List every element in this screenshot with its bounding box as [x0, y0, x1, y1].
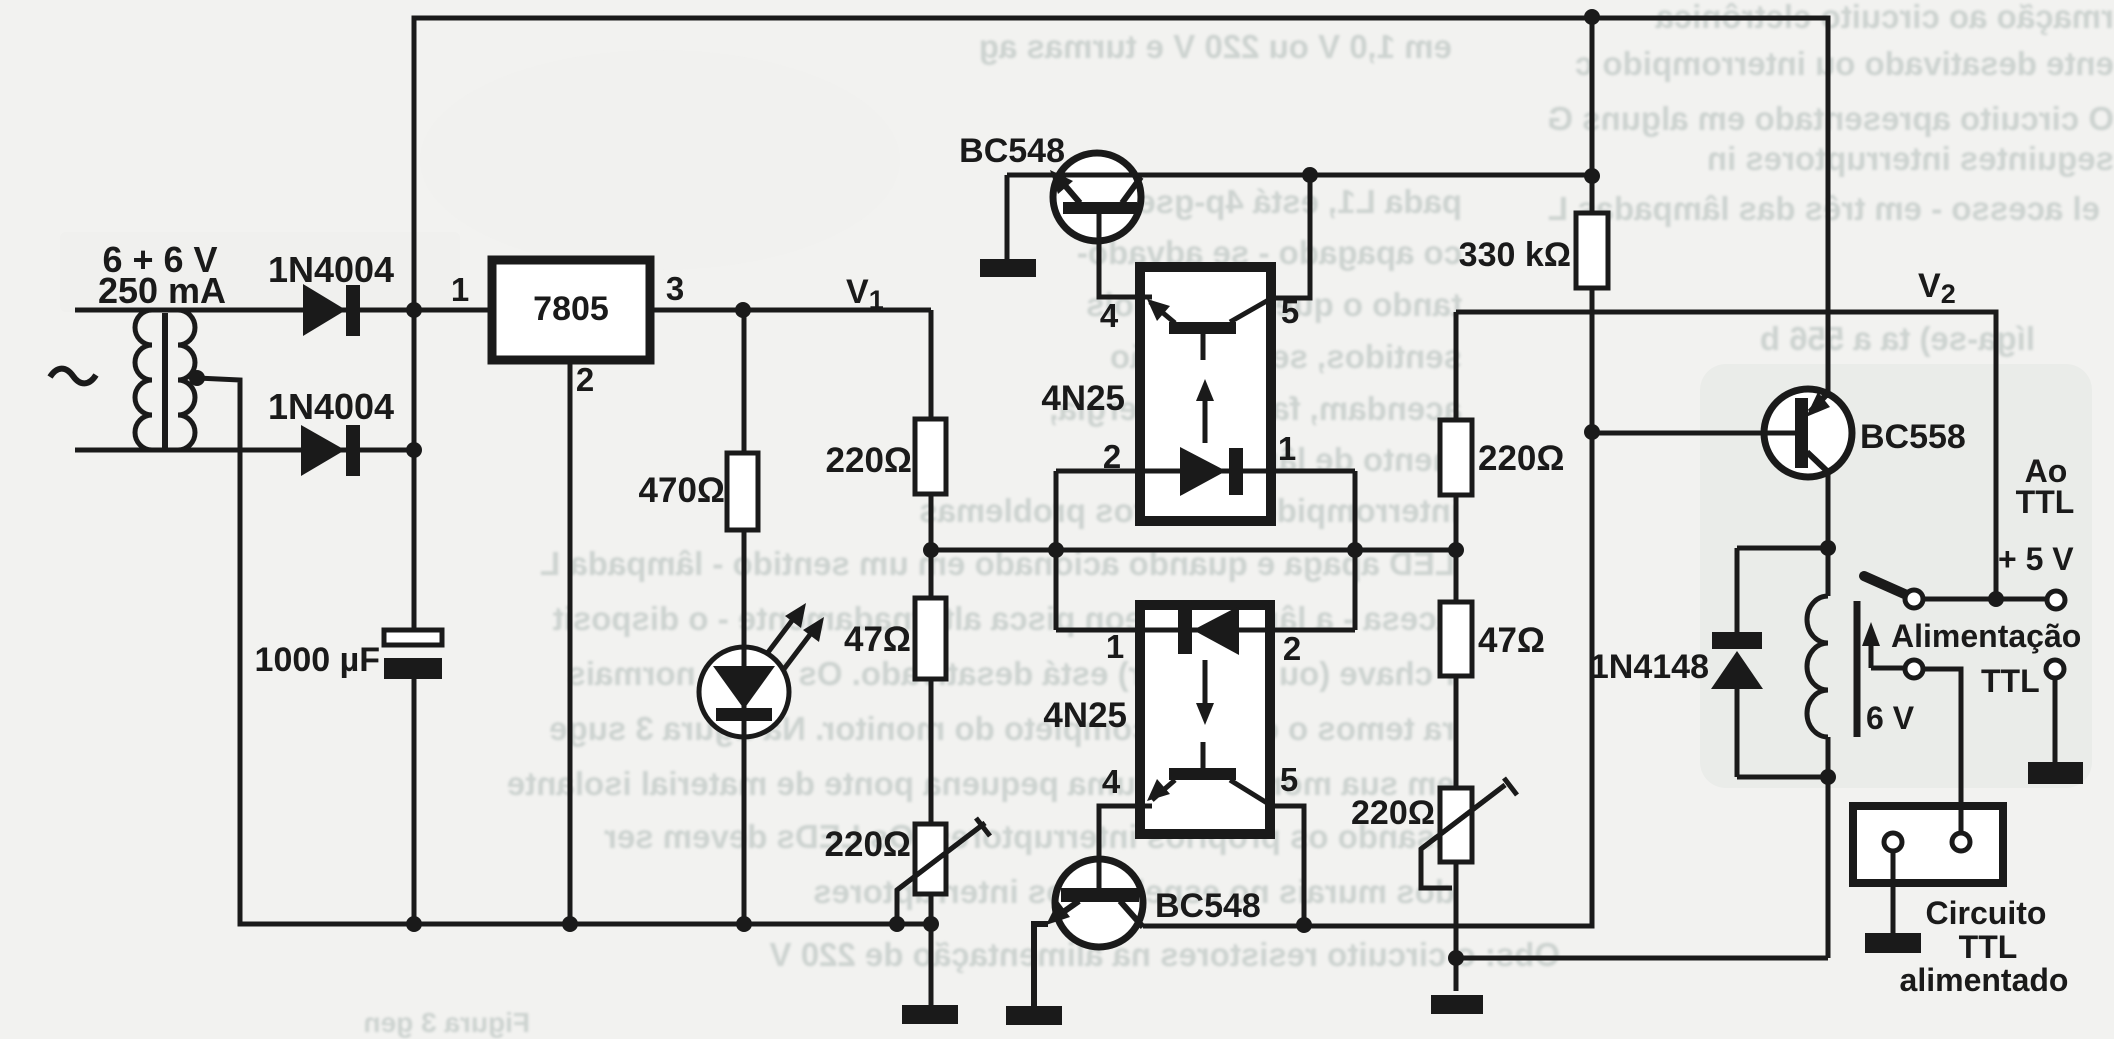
svg-text:el acesso - em três das lâmpad: el acesso - em três das lâmpadas L: [1548, 190, 2100, 227]
svg-text:BC548: BC548: [1155, 887, 1261, 925]
svg-text:1: 1: [1106, 628, 1124, 665]
svg-text:Obs: o circuito resistores na: Obs: o circuito resistores na alimentaçã…: [770, 936, 1560, 973]
svg-text:usando os próprios interruptor: usando os próprios interruptores. Os LED…: [604, 818, 1455, 855]
svg-text:BC548: BC548: [959, 132, 1065, 170]
svg-text:TTL: TTL: [1981, 663, 2040, 699]
svg-text:1N4004: 1N4004: [268, 249, 394, 290]
svg-text:em sua montagem numa pequena p: em sua montagem numa pequena ponte de ma…: [507, 765, 1455, 802]
svg-text:4: 4: [1102, 763, 1121, 800]
svg-text:3: 3: [666, 270, 684, 307]
svg-text:em 1,0 V ou 220 V e turmas ag: em 1,0 V ou 220 V e turmas ag: [979, 28, 1452, 65]
svg-text:O circuito apresentado em algu: O circuito apresentado em alguns G: [1547, 100, 2114, 137]
svg-text:4: 4: [1100, 297, 1119, 334]
svg-text:47Ω: 47Ω: [844, 620, 911, 659]
svg-text:BC558: BC558: [1860, 418, 1966, 456]
svg-text:1N4148: 1N4148: [1590, 648, 1709, 686]
svg-text:7805: 7805: [533, 290, 609, 328]
svg-text:TTL: TTL: [2016, 484, 2075, 520]
svg-text:2: 2: [1283, 630, 1301, 667]
svg-text:2: 2: [576, 361, 594, 398]
svg-text:4N25: 4N25: [1041, 379, 1125, 418]
svg-text:TTL: TTL: [1959, 929, 2018, 965]
svg-text:seguintes interruptores in: seguintes interruptores in: [1707, 140, 2114, 177]
svg-text:Circuito: Circuito: [1926, 895, 2047, 931]
svg-text:220Ω: 220Ω: [1478, 439, 1564, 478]
svg-text:Figura 3 gen: Figura 3 gen: [364, 1007, 530, 1038]
svg-text:1: 1: [451, 271, 469, 308]
svg-text:1000 µF: 1000 µF: [255, 641, 380, 679]
svg-text:+ 5 V: + 5 V: [1998, 541, 2074, 577]
svg-text:ra temos o circuito completo d: ra temos o circuito completo do monitor.…: [549, 710, 1455, 747]
svg-text:330 kΩ: 330 kΩ: [1459, 236, 1571, 274]
svg-text:pada L1, está 4p-gsel: pada L1, está 4p-gsel: [1128, 183, 1462, 220]
svg-text:alimentado: alimentado: [1900, 962, 2069, 998]
svg-text:5: 5: [1281, 293, 1299, 330]
svg-text:220Ω: 220Ω: [1351, 794, 1435, 832]
svg-text:4N25: 4N25: [1043, 696, 1127, 735]
svg-text:220Ω: 220Ω: [826, 441, 912, 480]
svg-text:2: 2: [1103, 438, 1121, 475]
svg-text:Alimentação: Alimentação: [1891, 618, 2081, 654]
svg-text:1N4004: 1N4004: [268, 386, 394, 427]
svg-text:470Ω: 470Ω: [639, 471, 725, 510]
svg-text:ente desativado ou interrompid: ente desativado ou interrompido c: [1575, 45, 2114, 82]
svg-text:47Ω: 47Ω: [1478, 621, 1545, 660]
svg-text:6 V: 6 V: [1866, 700, 1915, 736]
svg-text:5: 5: [1280, 761, 1298, 798]
svg-text:220Ω: 220Ω: [825, 825, 911, 864]
svg-text:1: 1: [1278, 430, 1296, 467]
svg-text:250 mA: 250 mA: [98, 270, 226, 311]
